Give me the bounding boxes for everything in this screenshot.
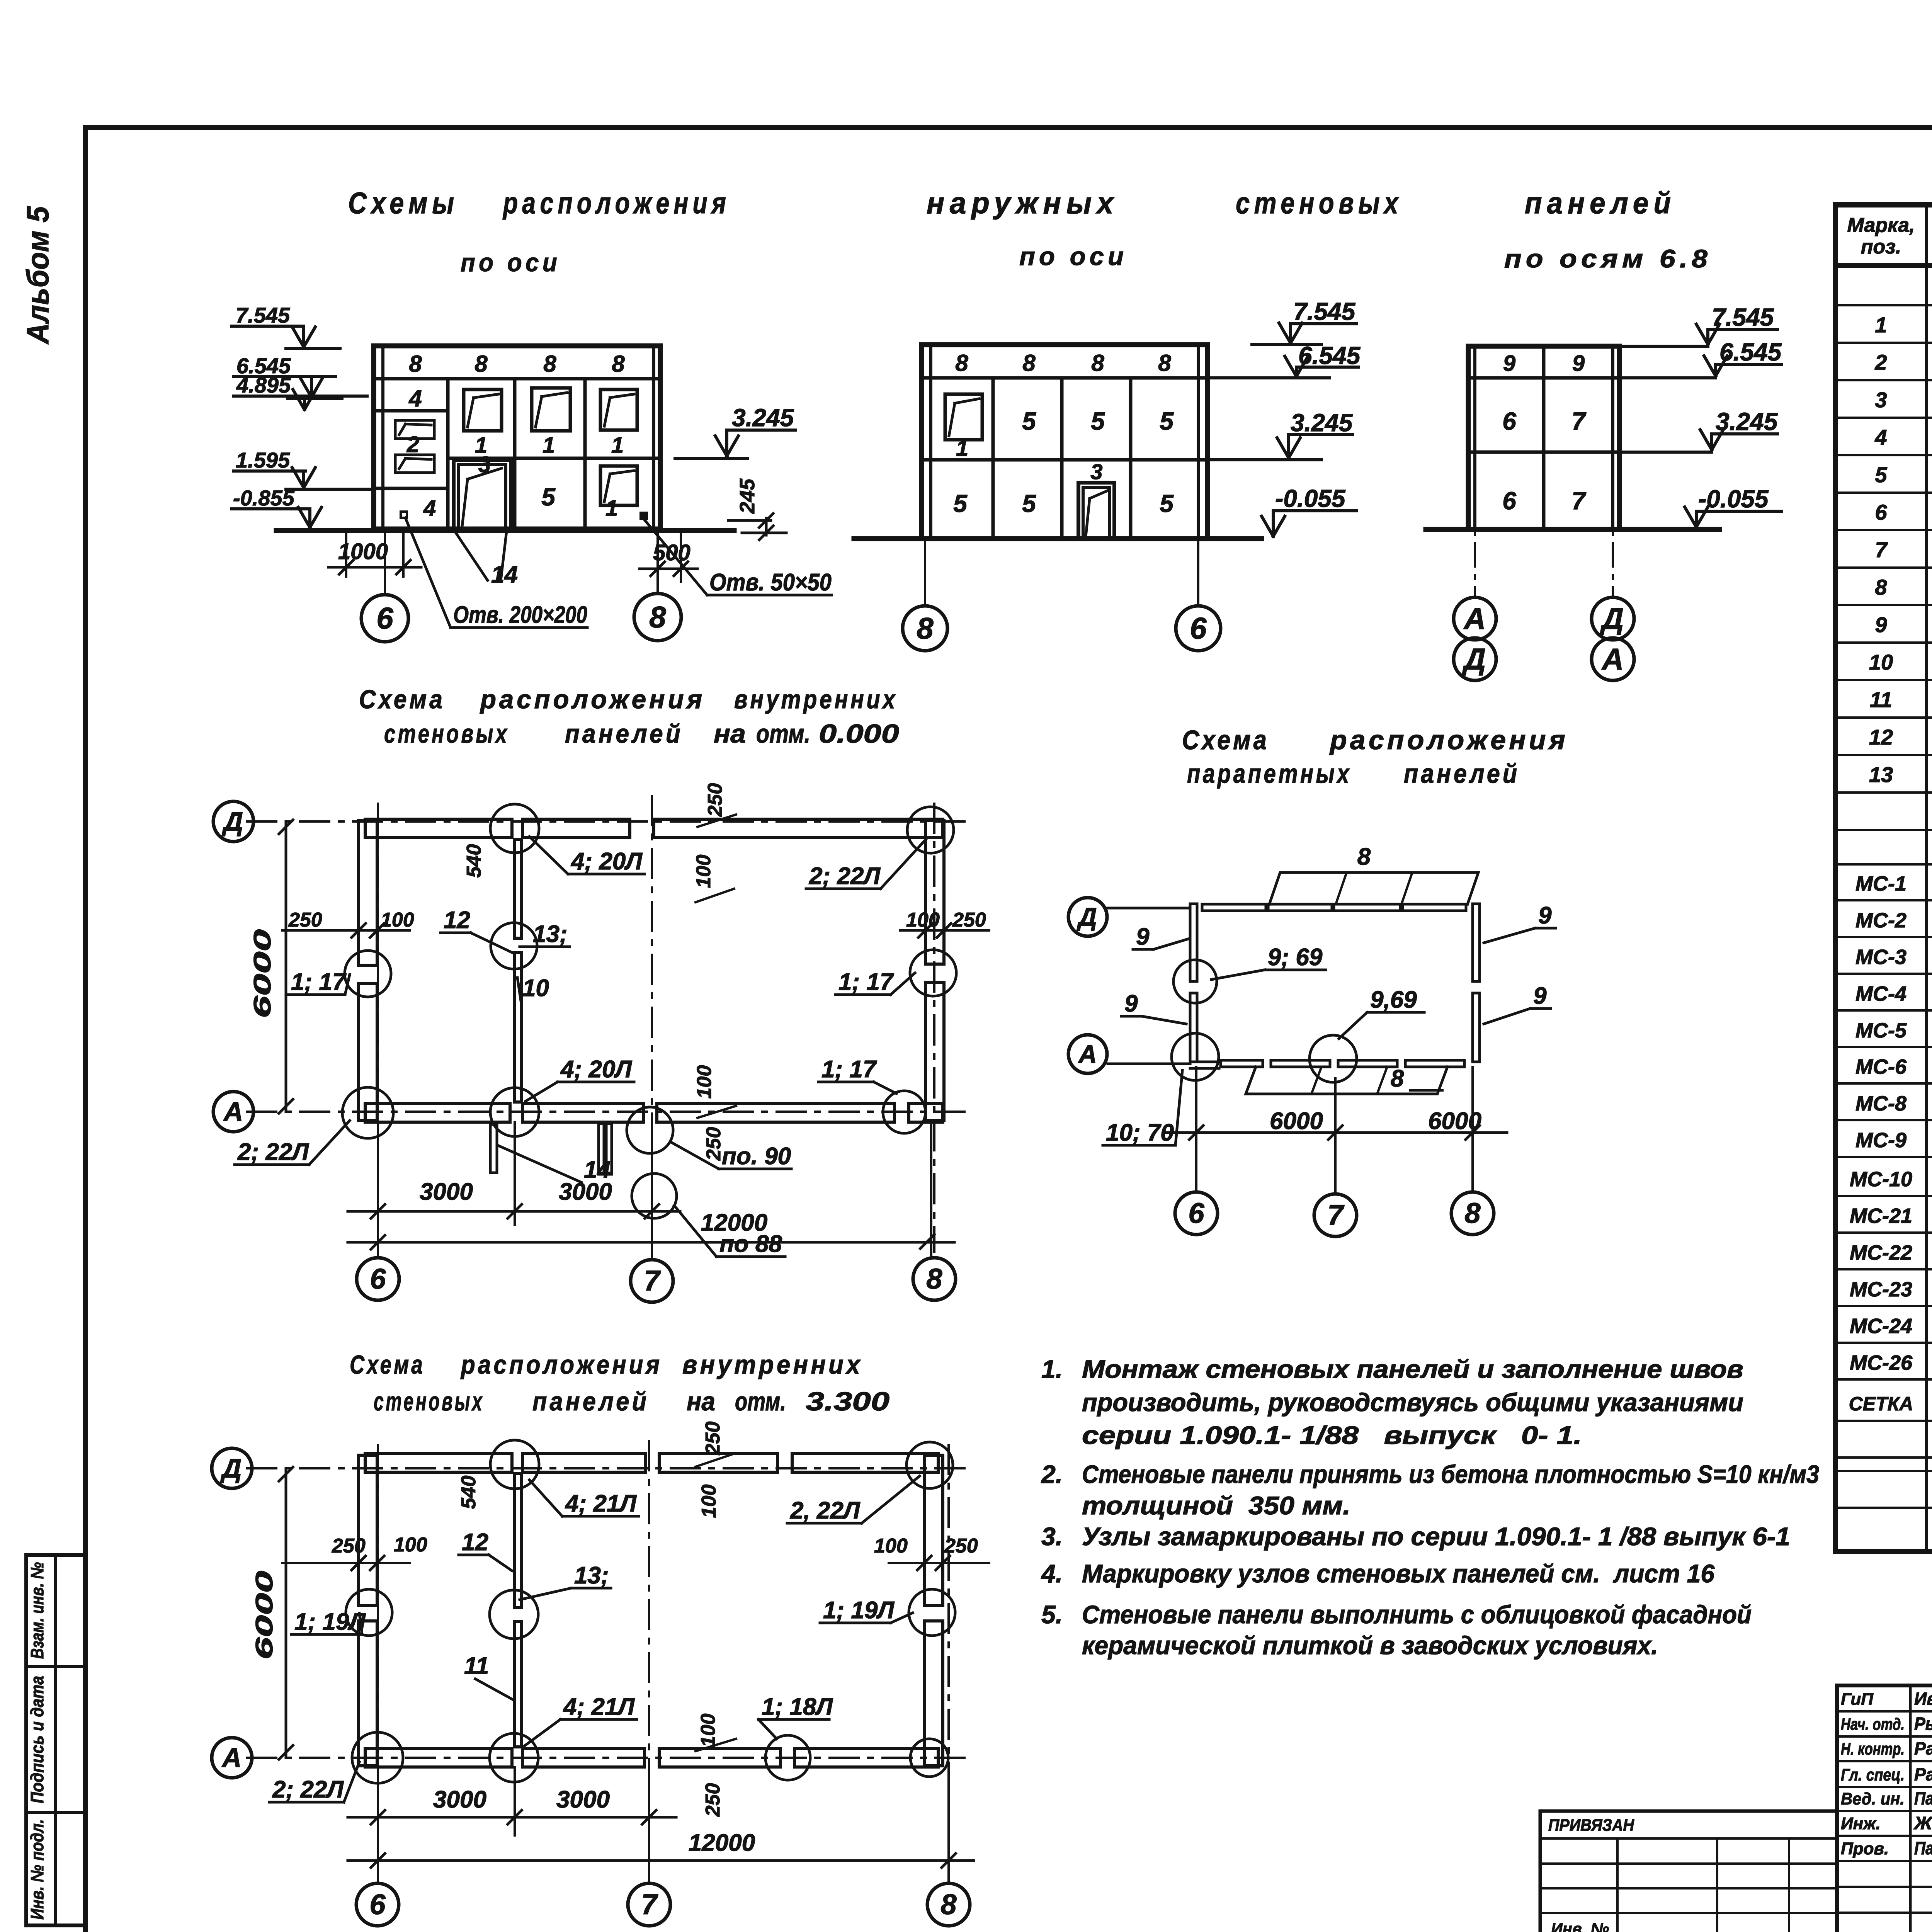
svg-text:панелей: панелей (532, 1387, 649, 1416)
svg-text:по осям 6.8: по осям 6.8 (1504, 244, 1712, 273)
svg-text:100: 100 (693, 1065, 716, 1099)
svg-text:5: 5 (1022, 407, 1036, 435)
svg-text:5.: 5. (1041, 1600, 1063, 1629)
svg-text:Схема: Схема (359, 685, 445, 714)
svg-text:4.: 4. (1041, 1559, 1063, 1588)
svg-text:керамической плиткой в заводск: керамической плиткой в заводских условия… (1082, 1631, 1658, 1660)
svg-text:-0.055: -0.055 (1275, 485, 1346, 512)
svg-text:4: 4 (423, 496, 436, 521)
svg-text:Инж.: Инж. (1841, 1814, 1881, 1833)
svg-text:1: 1 (1875, 313, 1887, 337)
svg-text:1: 1 (956, 436, 968, 461)
svg-text:стеновых: стеновых (384, 719, 509, 748)
svg-text:по 88: по 88 (719, 1231, 782, 1257)
svg-text:540: 540 (463, 844, 485, 878)
svg-text:МС-2: МС-2 (1855, 909, 1906, 932)
svg-text:ГиП: ГиП (1841, 1690, 1874, 1709)
svg-text:панелей: панелей (565, 719, 683, 748)
svg-text:12000: 12000 (689, 1830, 755, 1856)
svg-text:Монтаж стеновых панелей и запо: Монтаж стеновых панелей и заполнение шво… (1082, 1355, 1743, 1383)
svg-text:4: 4 (1874, 425, 1887, 449)
svg-text:1; 17: 1; 17 (821, 1056, 877, 1083)
svg-text:4; 21Л: 4; 21Л (563, 1694, 635, 1720)
svg-text:расположения: расположения (480, 685, 705, 714)
svg-text:7: 7 (1571, 487, 1587, 515)
svg-text:внутренних: внутренних (734, 685, 898, 714)
svg-text:6: 6 (1188, 1197, 1204, 1229)
svg-text:250: 250 (952, 909, 986, 931)
svg-text:6: 6 (376, 601, 393, 635)
svg-text:1: 1 (605, 496, 618, 521)
svg-text:7: 7 (644, 1265, 661, 1297)
svg-text:А: А (221, 1743, 242, 1773)
svg-text:Рашевский: Рашевский (1914, 1764, 1932, 1784)
svg-text:4: 4 (408, 386, 422, 412)
svg-text:3.245: 3.245 (1291, 409, 1353, 437)
svg-text:2: 2 (406, 432, 419, 457)
svg-text:5: 5 (1160, 490, 1174, 517)
svg-text:250: 250 (332, 1535, 366, 1557)
svg-text:7: 7 (641, 1888, 658, 1920)
svg-text:1; 19Л: 1; 19Л (294, 1609, 366, 1635)
svg-text:9: 9 (1572, 351, 1585, 376)
svg-text:Стеновые панели выполнить с об: Стеновые панели выполнить с облицовкой ф… (1082, 1600, 1752, 1629)
svg-text:250: 250 (702, 1783, 724, 1817)
svg-text:стеновых: стеновых (1236, 186, 1403, 220)
svg-text:5: 5 (1875, 463, 1887, 487)
svg-text:8: 8 (926, 1263, 942, 1295)
svg-text:4; 20Л: 4; 20Л (570, 848, 643, 875)
svg-text:Инв. № подл.: Инв. № подл. (27, 1819, 47, 1920)
svg-text:Пров.: Пров. (1841, 1839, 1889, 1858)
svg-text:МС-26: МС-26 (1850, 1351, 1913, 1374)
svg-text:0.000: 0.000 (819, 719, 899, 748)
svg-text:МС-21: МС-21 (1850, 1204, 1912, 1228)
svg-text:100: 100 (394, 1534, 427, 1556)
svg-text:13;: 13; (533, 921, 568, 947)
svg-text:6.545: 6.545 (1719, 338, 1782, 366)
svg-text:14: 14 (584, 1156, 611, 1183)
svg-text:на: на (687, 1387, 715, 1416)
svg-text:панелей: панелей (1525, 186, 1676, 220)
svg-text:8: 8 (1391, 1065, 1404, 1092)
svg-text:1; 19Л: 1; 19Л (823, 1597, 895, 1624)
svg-text:7.545: 7.545 (1293, 298, 1356, 325)
svg-text:отм.: отм. (735, 1387, 786, 1416)
svg-text:МС-8: МС-8 (1855, 1092, 1906, 1115)
svg-text:8: 8 (940, 1888, 957, 1920)
svg-text:5: 5 (1160, 407, 1174, 435)
svg-text:6: 6 (1875, 500, 1887, 524)
svg-text:250: 250 (944, 1535, 978, 1557)
svg-text:100: 100 (381, 909, 414, 931)
svg-text:3: 3 (478, 452, 491, 477)
svg-text:Отв. 50×50: Отв. 50×50 (709, 569, 832, 596)
svg-text:МС-4: МС-4 (1855, 982, 1906, 1005)
svg-text:ПРИВЯЗАН: ПРИВЯЗАН (1548, 1816, 1634, 1835)
svg-text:100: 100 (697, 1714, 719, 1747)
svg-text:МС-23: МС-23 (1850, 1278, 1912, 1301)
svg-text:5: 5 (1091, 407, 1105, 435)
svg-text:3.: 3. (1041, 1522, 1063, 1551)
svg-text:Панкратова: Панкратова (1914, 1838, 1932, 1858)
svg-text:10: 10 (1869, 650, 1893, 674)
svg-text:Отв. 200×200: Отв. 200×200 (453, 602, 587, 628)
svg-text:3.245: 3.245 (732, 404, 794, 432)
svg-text:Инв. №: Инв. № (1551, 1920, 1609, 1932)
svg-text:4; 20Л: 4; 20Л (560, 1056, 632, 1083)
svg-text:6: 6 (1502, 407, 1516, 435)
svg-text:толщиной 350 мм.: толщиной 350 мм. (1082, 1491, 1350, 1520)
svg-text:3000: 3000 (556, 1786, 610, 1813)
svg-text:8: 8 (917, 611, 934, 645)
svg-text:внутренних: внутренних (682, 1350, 863, 1379)
svg-text:МС-1: МС-1 (1855, 872, 1906, 895)
svg-text:1: 1 (543, 433, 555, 458)
svg-text:расположения: расположения (460, 1350, 662, 1379)
svg-text:8: 8 (1158, 350, 1171, 376)
svg-text:6000: 6000 (249, 929, 276, 1018)
svg-text:А: А (1078, 1039, 1097, 1068)
svg-text:Панкратова: Панкратова (1914, 1788, 1932, 1808)
svg-text:МС-9: МС-9 (1855, 1129, 1906, 1152)
svg-text:2, 22Л: 2, 22Л (790, 1497, 861, 1524)
svg-text:9: 9 (1533, 983, 1547, 1009)
svg-text:производить, руководствуясь об: производить, руководствуясь общими указа… (1082, 1388, 1743, 1417)
svg-text:7: 7 (1875, 537, 1888, 562)
svg-text:2.: 2. (1041, 1460, 1063, 1488)
svg-text:3.300: 3.300 (806, 1387, 889, 1416)
svg-text:3000: 3000 (433, 1786, 486, 1813)
svg-text:1.595: 1.595 (236, 448, 290, 472)
svg-text:МС-24: МС-24 (1850, 1315, 1912, 1338)
svg-text:6000: 6000 (1428, 1108, 1481, 1134)
svg-text:250: 250 (704, 783, 726, 817)
svg-text:250: 250 (702, 1422, 724, 1456)
svg-text:6000: 6000 (1270, 1108, 1323, 1134)
svg-text:Рыбкина: Рыбкина (1914, 1714, 1932, 1734)
svg-text:-0.055: -0.055 (1698, 485, 1769, 513)
svg-text:8: 8 (409, 351, 422, 377)
svg-text:5: 5 (1022, 490, 1036, 517)
svg-text:3: 3 (1090, 459, 1102, 484)
svg-text:2; 22Л: 2; 22Л (272, 1776, 344, 1803)
svg-text:1; 17: 1; 17 (291, 969, 347, 995)
svg-text:на: на (714, 719, 746, 748)
svg-text:Д: Д (222, 806, 243, 837)
svg-text:9: 9 (1875, 612, 1887, 637)
svg-text:серии 1.090.1- 1/88 выпуск: серии 1.090.1- 1/88 выпуск 0- 1. (1082, 1421, 1582, 1449)
svg-text:Подпись и дата: Подпись и дата (27, 1676, 47, 1803)
svg-text:наружных: наружных (927, 186, 1119, 220)
svg-text:8: 8 (474, 351, 488, 377)
svg-text:7: 7 (1571, 407, 1587, 435)
svg-text:1; 17: 1; 17 (838, 969, 894, 995)
svg-text:13: 13 (1869, 762, 1893, 787)
svg-text:6000: 6000 (251, 1571, 278, 1660)
svg-text:Альбом 5: Альбом 5 (20, 206, 55, 345)
svg-text:8: 8 (1091, 350, 1104, 376)
svg-text:Схема: Схема (350, 1350, 425, 1379)
svg-text:10: 10 (522, 975, 549, 1002)
svg-text:8: 8 (649, 600, 666, 634)
svg-text:МС-22: МС-22 (1850, 1241, 1912, 1264)
svg-text:парапетных: парапетных (1187, 759, 1352, 789)
svg-text:245: 245 (736, 478, 759, 514)
svg-text:Иванова: Иванова (1914, 1689, 1932, 1709)
svg-text:14: 14 (491, 561, 518, 588)
svg-text:7.545: 7.545 (236, 303, 290, 327)
svg-text:9; 69: 9; 69 (1268, 944, 1323, 971)
svg-text:13;: 13; (574, 1562, 609, 1589)
svg-text:СЕТКА: СЕТКА (1849, 1393, 1913, 1415)
svg-text:8: 8 (1464, 1197, 1481, 1229)
svg-text:МС-6: МС-6 (1855, 1055, 1907, 1078)
svg-text:8: 8 (955, 350, 968, 376)
svg-text:9: 9 (1503, 351, 1515, 376)
svg-text:Взам. инв. №: Взам. инв. № (27, 1562, 47, 1659)
svg-text:по оси: по оси (1019, 242, 1128, 270)
svg-text:6: 6 (1190, 611, 1207, 645)
svg-text:11: 11 (1870, 687, 1892, 712)
svg-text:по оси: по оси (461, 248, 561, 277)
svg-text:6: 6 (369, 1888, 386, 1920)
svg-text:5: 5 (541, 483, 556, 511)
svg-text:7: 7 (1327, 1199, 1345, 1231)
svg-text:4; 21Л: 4; 21Л (565, 1490, 637, 1517)
svg-text:6: 6 (370, 1263, 386, 1295)
svg-text:Н. контр.: Н. контр. (1841, 1740, 1905, 1759)
svg-text:9: 9 (1124, 990, 1138, 1017)
svg-text:2: 2 (1874, 350, 1887, 374)
svg-text:Стеновые панели принять из бет: Стеновые панели принять из бетона плотно… (1082, 1460, 1819, 1488)
svg-text:Вед. ин.: Вед. ин. (1841, 1789, 1905, 1808)
svg-text:Узлы замаркированы по серии 1.: Узлы замаркированы по серии 1.090.1- 1 /… (1082, 1522, 1790, 1551)
svg-text:8: 8 (1875, 575, 1887, 599)
svg-text:Д: Д (1077, 902, 1097, 931)
svg-text:4.895: 4.895 (236, 373, 291, 397)
svg-text:расположения: расположения (502, 186, 730, 220)
svg-text:12: 12 (462, 1529, 488, 1556)
svg-text:100: 100 (698, 1485, 720, 1518)
svg-text:250: 250 (288, 909, 322, 931)
svg-text:250: 250 (702, 1127, 725, 1161)
svg-text:9,69: 9,69 (1370, 986, 1417, 1013)
svg-text:8: 8 (543, 351, 556, 377)
svg-text:3000: 3000 (420, 1179, 473, 1205)
svg-text:поз.: поз. (1861, 236, 1901, 258)
svg-text:1.: 1. (1041, 1355, 1063, 1383)
svg-text:12: 12 (444, 907, 470, 934)
svg-text:540: 540 (457, 1476, 480, 1509)
svg-text:МС-10: МС-10 (1850, 1168, 1912, 1191)
svg-text:Рашевский: Рашевский (1914, 1738, 1932, 1759)
svg-text:2; 22Л: 2; 22Л (237, 1139, 309, 1165)
svg-text:Д: Д (1462, 642, 1486, 676)
svg-text:МС-3: МС-3 (1855, 946, 1906, 969)
svg-text:Маркировку узлов стеновых пане: Маркировку узлов стеновых панелей см. ли… (1082, 1559, 1715, 1588)
svg-text:-0.855: -0.855 (233, 486, 295, 510)
svg-text:9: 9 (1538, 902, 1552, 929)
svg-text:стеновых: стеновых (374, 1387, 484, 1416)
svg-text:12: 12 (1869, 725, 1893, 749)
svg-text:А: А (1601, 642, 1624, 676)
svg-text:Схемы: Схемы (348, 186, 459, 220)
svg-text:9: 9 (1136, 923, 1150, 950)
svg-text:6: 6 (1502, 487, 1516, 515)
svg-text:Д: Д (220, 1453, 242, 1483)
svg-text:1; 18Л: 1; 18Л (762, 1694, 833, 1720)
svg-text:5: 5 (953, 490, 968, 517)
svg-text:1000: 1000 (338, 539, 388, 564)
svg-text:А: А (223, 1097, 243, 1127)
svg-text:3: 3 (1875, 388, 1887, 412)
svg-text:А: А (1463, 602, 1486, 636)
svg-text:100: 100 (906, 909, 940, 931)
svg-text:8: 8 (1357, 844, 1371, 870)
svg-text:расположения: расположения (1329, 725, 1568, 755)
svg-text:11: 11 (464, 1653, 489, 1679)
svg-text:8: 8 (1022, 350, 1036, 376)
svg-text:Жохова: Жохова (1913, 1813, 1932, 1833)
svg-text:по. 90: по. 90 (722, 1143, 791, 1170)
svg-text:2; 22Л: 2; 22Л (809, 863, 881, 889)
svg-text:Д: Д (1600, 602, 1624, 636)
svg-text:Схема: Схема (1182, 725, 1269, 755)
svg-text:Гл. спец.: Гл. спец. (1841, 1765, 1905, 1784)
svg-text:отм.: отм. (756, 719, 810, 748)
svg-text:7.545: 7.545 (1712, 303, 1774, 331)
svg-text:панелей: панелей (1404, 759, 1520, 789)
svg-text:1: 1 (611, 433, 624, 458)
svg-text:8: 8 (612, 351, 625, 377)
svg-text:100: 100 (874, 1535, 908, 1557)
svg-text:100: 100 (692, 855, 715, 888)
svg-text:Марка,: Марка, (1847, 214, 1915, 236)
svg-text:3.245: 3.245 (1716, 408, 1778, 435)
svg-text:МС-5: МС-5 (1855, 1019, 1907, 1042)
svg-text:Нач. отд.: Нач. отд. (1841, 1715, 1905, 1734)
